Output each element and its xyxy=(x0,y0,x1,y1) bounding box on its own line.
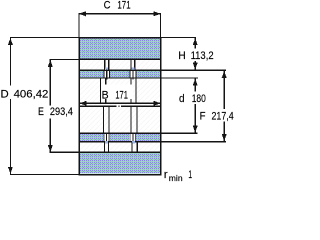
C dimension line xyxy=(79,13,161,14)
cage bars zone B (strip1 to B-line) xyxy=(100,79,101,104)
svg-text:293,4: 293,4 xyxy=(50,106,73,118)
svg-text:D: D xyxy=(1,89,9,101)
svg-text:171: 171 xyxy=(115,89,128,101)
svg-text:d: d xyxy=(179,93,185,105)
label H 113,2 xyxy=(177,49,217,62)
strip1 top line xyxy=(79,70,161,71)
svg-text:r: r xyxy=(164,169,168,181)
arrow H bottom xyxy=(193,63,198,70)
pocket box strip2 left xyxy=(104,134,108,141)
arrow B right xyxy=(154,101,161,106)
d dimension line xyxy=(195,79,196,133)
pocket box strip1 left xyxy=(104,71,110,78)
svg-text:217,4: 217,4 xyxy=(212,110,234,122)
H dimension line xyxy=(195,38,196,69)
C dimension extension line left xyxy=(78,13,79,37)
arrow d top xyxy=(193,79,198,86)
svg-text:180: 180 xyxy=(192,93,206,105)
D dimension line xyxy=(10,38,11,175)
E extension line bottom xyxy=(50,152,79,153)
arrow F top xyxy=(222,71,227,78)
arrow D top xyxy=(8,38,13,45)
svg-text:B: B xyxy=(102,89,109,101)
inner ring section xyxy=(80,153,160,174)
dimension line B xyxy=(79,103,161,104)
F dimension line xyxy=(224,71,225,141)
bearing outline top xyxy=(78,37,161,39)
extension line: strip2 top right xyxy=(162,133,198,134)
strip2 bottom line xyxy=(79,141,161,142)
svg-text:F: F xyxy=(200,110,206,122)
arrow H top xyxy=(193,38,198,45)
arrow d bottom xyxy=(193,126,198,133)
strip2 top line xyxy=(79,133,161,134)
svg-text:171: 171 xyxy=(117,0,130,12)
arrow E bottom xyxy=(48,145,53,152)
svg-text:E: E xyxy=(38,106,44,118)
arrow D bottom xyxy=(8,167,13,174)
arrow F bottom xyxy=(222,134,227,141)
extension line: strip2 bottom right xyxy=(162,141,227,142)
arrow B left xyxy=(80,101,87,106)
intermediate strip 2 (cage rail) xyxy=(80,134,160,141)
label F 217,4 xyxy=(198,109,236,122)
C dimension extension line right xyxy=(160,13,161,37)
label E 293,4 xyxy=(36,106,76,119)
outer ring section xyxy=(80,38,160,58)
cage bars zone A right pair xyxy=(130,59,131,69)
svg-text:C: C xyxy=(104,0,111,12)
arrow C right xyxy=(154,11,161,16)
strip1 bottom line xyxy=(79,77,161,78)
pocket box strip1 right xyxy=(130,71,136,78)
B text background xyxy=(101,85,133,99)
roller end squares above strip1 xyxy=(105,68,108,71)
svg-text:406,42: 406,42 xyxy=(14,89,49,101)
inner ring top line xyxy=(79,152,161,153)
label D 406,42 xyxy=(0,86,53,100)
pocket box strip2 right xyxy=(131,134,135,141)
H extension line top (bearing top, right side) xyxy=(162,37,197,38)
arrow C left xyxy=(79,11,86,16)
svg-text:H: H xyxy=(178,50,186,62)
E dimension line xyxy=(50,59,51,152)
E extension line top xyxy=(50,59,79,60)
bearing outline bottom xyxy=(78,174,161,176)
outer ring bottom line xyxy=(79,59,161,60)
svg-text:min: min xyxy=(169,173,183,182)
cage bars zone D (below strip2) xyxy=(104,143,105,153)
bearing outline right face xyxy=(160,37,162,175)
extension line A: strip1 top right xyxy=(162,70,227,71)
cage bars zone C (split to strip2) xyxy=(103,107,104,133)
D extension line top xyxy=(10,37,79,38)
label d 180 xyxy=(178,92,209,105)
intermediate strip 1 (cage rail) xyxy=(80,71,160,78)
inner unsectioned area faint hatch xyxy=(80,59,160,152)
roller end squares below strip2 xyxy=(105,141,108,144)
svg-text:113,2: 113,2 xyxy=(191,50,214,62)
cage bars zone A left pair xyxy=(104,59,105,69)
arrow E top xyxy=(48,60,53,67)
bearing outline left face xyxy=(78,37,80,175)
D extension line bottom xyxy=(10,174,79,175)
split line with centerline dot xyxy=(79,106,117,107)
extension line B: strip1 bottom right xyxy=(162,77,198,78)
svg-text:1: 1 xyxy=(188,169,192,181)
